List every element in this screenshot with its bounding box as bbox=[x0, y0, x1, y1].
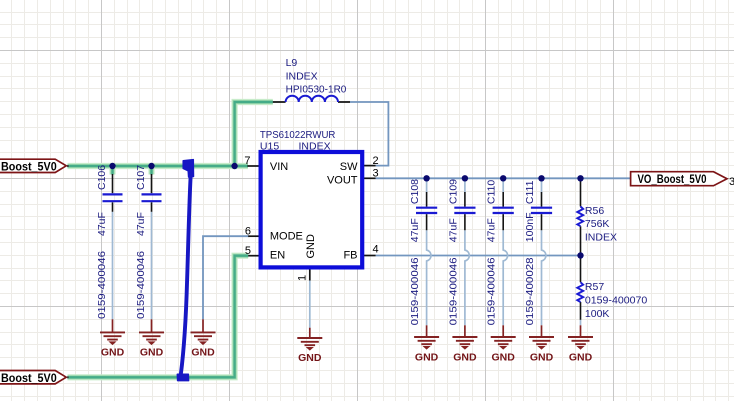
svg-text:47uF: 47uF bbox=[96, 212, 108, 236]
wire C111 leads with hop over FB bbox=[542, 180, 546, 325]
wire C107 green stub bbox=[148, 166, 154, 175]
svg-text:0159-400046: 0159-400046 bbox=[447, 257, 459, 325]
svg-text:SW: SW bbox=[340, 161, 358, 173]
svg-text:4: 4 bbox=[373, 243, 379, 255]
svg-text:3: 3 bbox=[373, 168, 379, 180]
pin 1 GND stub bbox=[309, 269, 311, 281]
svg-text:VIN: VIN bbox=[270, 161, 288, 173]
svg-text:GND: GND bbox=[191, 346, 215, 358]
svg-text:C107: C107 bbox=[135, 165, 147, 190]
wire C106 lower lead to ground bbox=[112, 212, 114, 319]
wire Boost_5V0 top rail (highlighted green) bbox=[68, 163, 249, 169]
junction dot C106/top rail bbox=[109, 163, 115, 169]
junction dot C108/VOUT rail bbox=[423, 175, 429, 181]
svg-text:100K: 100K bbox=[585, 308, 610, 320]
svg-text:GND: GND bbox=[492, 352, 516, 364]
pin 6 MODE stub bbox=[248, 235, 259, 237]
svg-text:Boost_5V0: Boost_5V0 bbox=[1, 162, 57, 174]
pin 5 EN stub bbox=[248, 255, 259, 257]
wire C110 leads with hop over FB bbox=[503, 180, 507, 325]
svg-text:7: 7 bbox=[244, 155, 250, 167]
svg-text:GND: GND bbox=[140, 346, 164, 358]
svg-text:GND: GND bbox=[415, 352, 439, 364]
svg-text:INDEX: INDEX bbox=[299, 141, 331, 153]
svg-text:C111: C111 bbox=[524, 180, 536, 204]
ground C109 bbox=[452, 325, 477, 349]
svg-text:0159-400046: 0159-400046 bbox=[409, 257, 421, 325]
svg-text:Boost_5V0: Boost_5V0 bbox=[1, 373, 57, 385]
svg-text:INDEX: INDEX bbox=[286, 70, 318, 82]
svg-text:47uF: 47uF bbox=[486, 218, 498, 242]
wire FB rail bbox=[376, 255, 581, 257]
svg-text:6: 6 bbox=[245, 226, 251, 238]
svg-text:VO_Boost_5V0: VO_Boost_5V0 bbox=[638, 174, 707, 186]
svg-text:MODE: MODE bbox=[270, 231, 303, 243]
pin 2 SW stub bbox=[363, 165, 376, 167]
node port tip dot bottom left bbox=[67, 376, 69, 378]
ground C108 bbox=[414, 325, 439, 349]
wire L9 to SW pin 2 bbox=[350, 102, 388, 166]
svg-text:GND: GND bbox=[305, 234, 317, 259]
junction dot R56/VOUT rail bbox=[577, 175, 583, 181]
svg-text:C109: C109 bbox=[447, 179, 459, 204]
svg-text:TPS61022RWUR: TPS61022RWUR bbox=[260, 129, 336, 141]
ground C111 bbox=[529, 325, 554, 349]
svg-text:5: 5 bbox=[245, 245, 251, 257]
svg-text:C110: C110 bbox=[486, 180, 498, 204]
ground C106 bbox=[100, 319, 125, 344]
svg-text:C108: C108 bbox=[409, 179, 421, 204]
pin 3 VOUT stub bbox=[363, 177, 376, 179]
capacitor C106 bbox=[103, 174, 123, 212]
wire VOUT rail bbox=[376, 177, 631, 179]
svg-text:47uF: 47uF bbox=[409, 218, 421, 242]
junction dot C110/VOUT rail bbox=[500, 175, 506, 181]
svg-text:EN: EN bbox=[270, 250, 285, 262]
inductor L9 bbox=[273, 96, 350, 102]
junction dot VIN riser/top rail bbox=[231, 163, 237, 169]
capacitor C107 bbox=[142, 174, 162, 212]
port VO_Boost_5V0 (right) bbox=[631, 172, 727, 186]
svg-text:GND: GND bbox=[569, 352, 593, 364]
svg-text:0159-400046: 0159-400046 bbox=[135, 251, 147, 319]
capacitor C110 bbox=[493, 192, 514, 230]
svg-text:0159-400070: 0159-400070 bbox=[585, 294, 648, 306]
svg-text:0159-400028: 0159-400028 bbox=[524, 257, 536, 325]
resistor R56 bbox=[577, 181, 583, 253]
wire Boost_5V0 vertical to inductor (highlighted green) bbox=[235, 102, 273, 166]
svg-text:L9: L9 bbox=[286, 57, 298, 69]
ground C107 bbox=[139, 319, 164, 344]
capacitor C109 bbox=[454, 192, 475, 230]
wire C108 leads with hop over FB bbox=[427, 180, 431, 325]
svg-text:0159-400046: 0159-400046 bbox=[96, 251, 108, 319]
junction dot R56-R57/FB rail bbox=[577, 252, 583, 258]
svg-text:GND: GND bbox=[298, 352, 322, 364]
svg-text:47uF: 47uF bbox=[135, 212, 147, 236]
op-amp U15 IC body TPS61022RWUR bbox=[261, 152, 363, 267]
wire C106 green stub bbox=[109, 166, 115, 175]
pin 7 VIN stub bbox=[247, 165, 259, 167]
resistor R57 bbox=[577, 259, 583, 320]
svg-text:0159-400046: 0159-400046 bbox=[486, 257, 498, 325]
wire MODE to ground bbox=[203, 236, 249, 319]
svg-text:47uF: 47uF bbox=[447, 218, 459, 242]
pin 4 FB stub bbox=[363, 255, 376, 257]
svg-text:R56: R56 bbox=[585, 205, 604, 217]
svg-text:FB: FB bbox=[343, 250, 357, 262]
svg-text:3: 3 bbox=[729, 176, 734, 188]
ground R57 bbox=[568, 325, 593, 349]
junction dot C111/VOUT rail bbox=[538, 175, 544, 181]
svg-text:VOUT: VOUT bbox=[327, 175, 358, 187]
junction dot C109/VOUT rail bbox=[462, 175, 468, 181]
port Boost_5V0 (top left) bbox=[0, 159, 66, 174]
svg-text:2: 2 bbox=[373, 155, 379, 167]
svg-text:R57: R57 bbox=[585, 281, 604, 293]
svg-text:U15: U15 bbox=[260, 141, 279, 153]
ground MODE bbox=[191, 319, 216, 344]
wire freehand thick blue drag wire bbox=[177, 160, 193, 381]
wire U15 GND pin 1 to ground bbox=[309, 281, 311, 328]
svg-text:100nF: 100nF bbox=[524, 212, 536, 242]
port Boost_5V0 (bottom left) bbox=[0, 371, 66, 385]
wire R57 to ground bbox=[580, 320, 582, 326]
svg-text:GND: GND bbox=[453, 352, 477, 364]
wire C109 leads with hop over FB bbox=[465, 180, 469, 325]
capacitor C108 bbox=[416, 192, 437, 230]
svg-text:GND: GND bbox=[101, 346, 125, 358]
junction dot C107/top rail bbox=[148, 163, 154, 169]
svg-text:HPI0530-1R0: HPI0530-1R0 bbox=[286, 84, 347, 96]
svg-text:INDEX: INDEX bbox=[585, 232, 617, 244]
svg-text:GND: GND bbox=[530, 352, 554, 364]
ground U15 pin 1 bbox=[297, 328, 322, 350]
wire C107 lower lead to ground bbox=[151, 212, 153, 319]
ground C110 bbox=[491, 325, 516, 349]
svg-text:1: 1 bbox=[297, 275, 309, 281]
svg-text:756K: 756K bbox=[585, 218, 610, 230]
capacitor C111 bbox=[531, 192, 552, 230]
node port tip dot top left bbox=[67, 165, 69, 167]
wire Boost_5V0 bottom rail and EN riser (highlighted green) bbox=[68, 256, 249, 378]
svg-text:C106: C106 bbox=[96, 165, 108, 190]
